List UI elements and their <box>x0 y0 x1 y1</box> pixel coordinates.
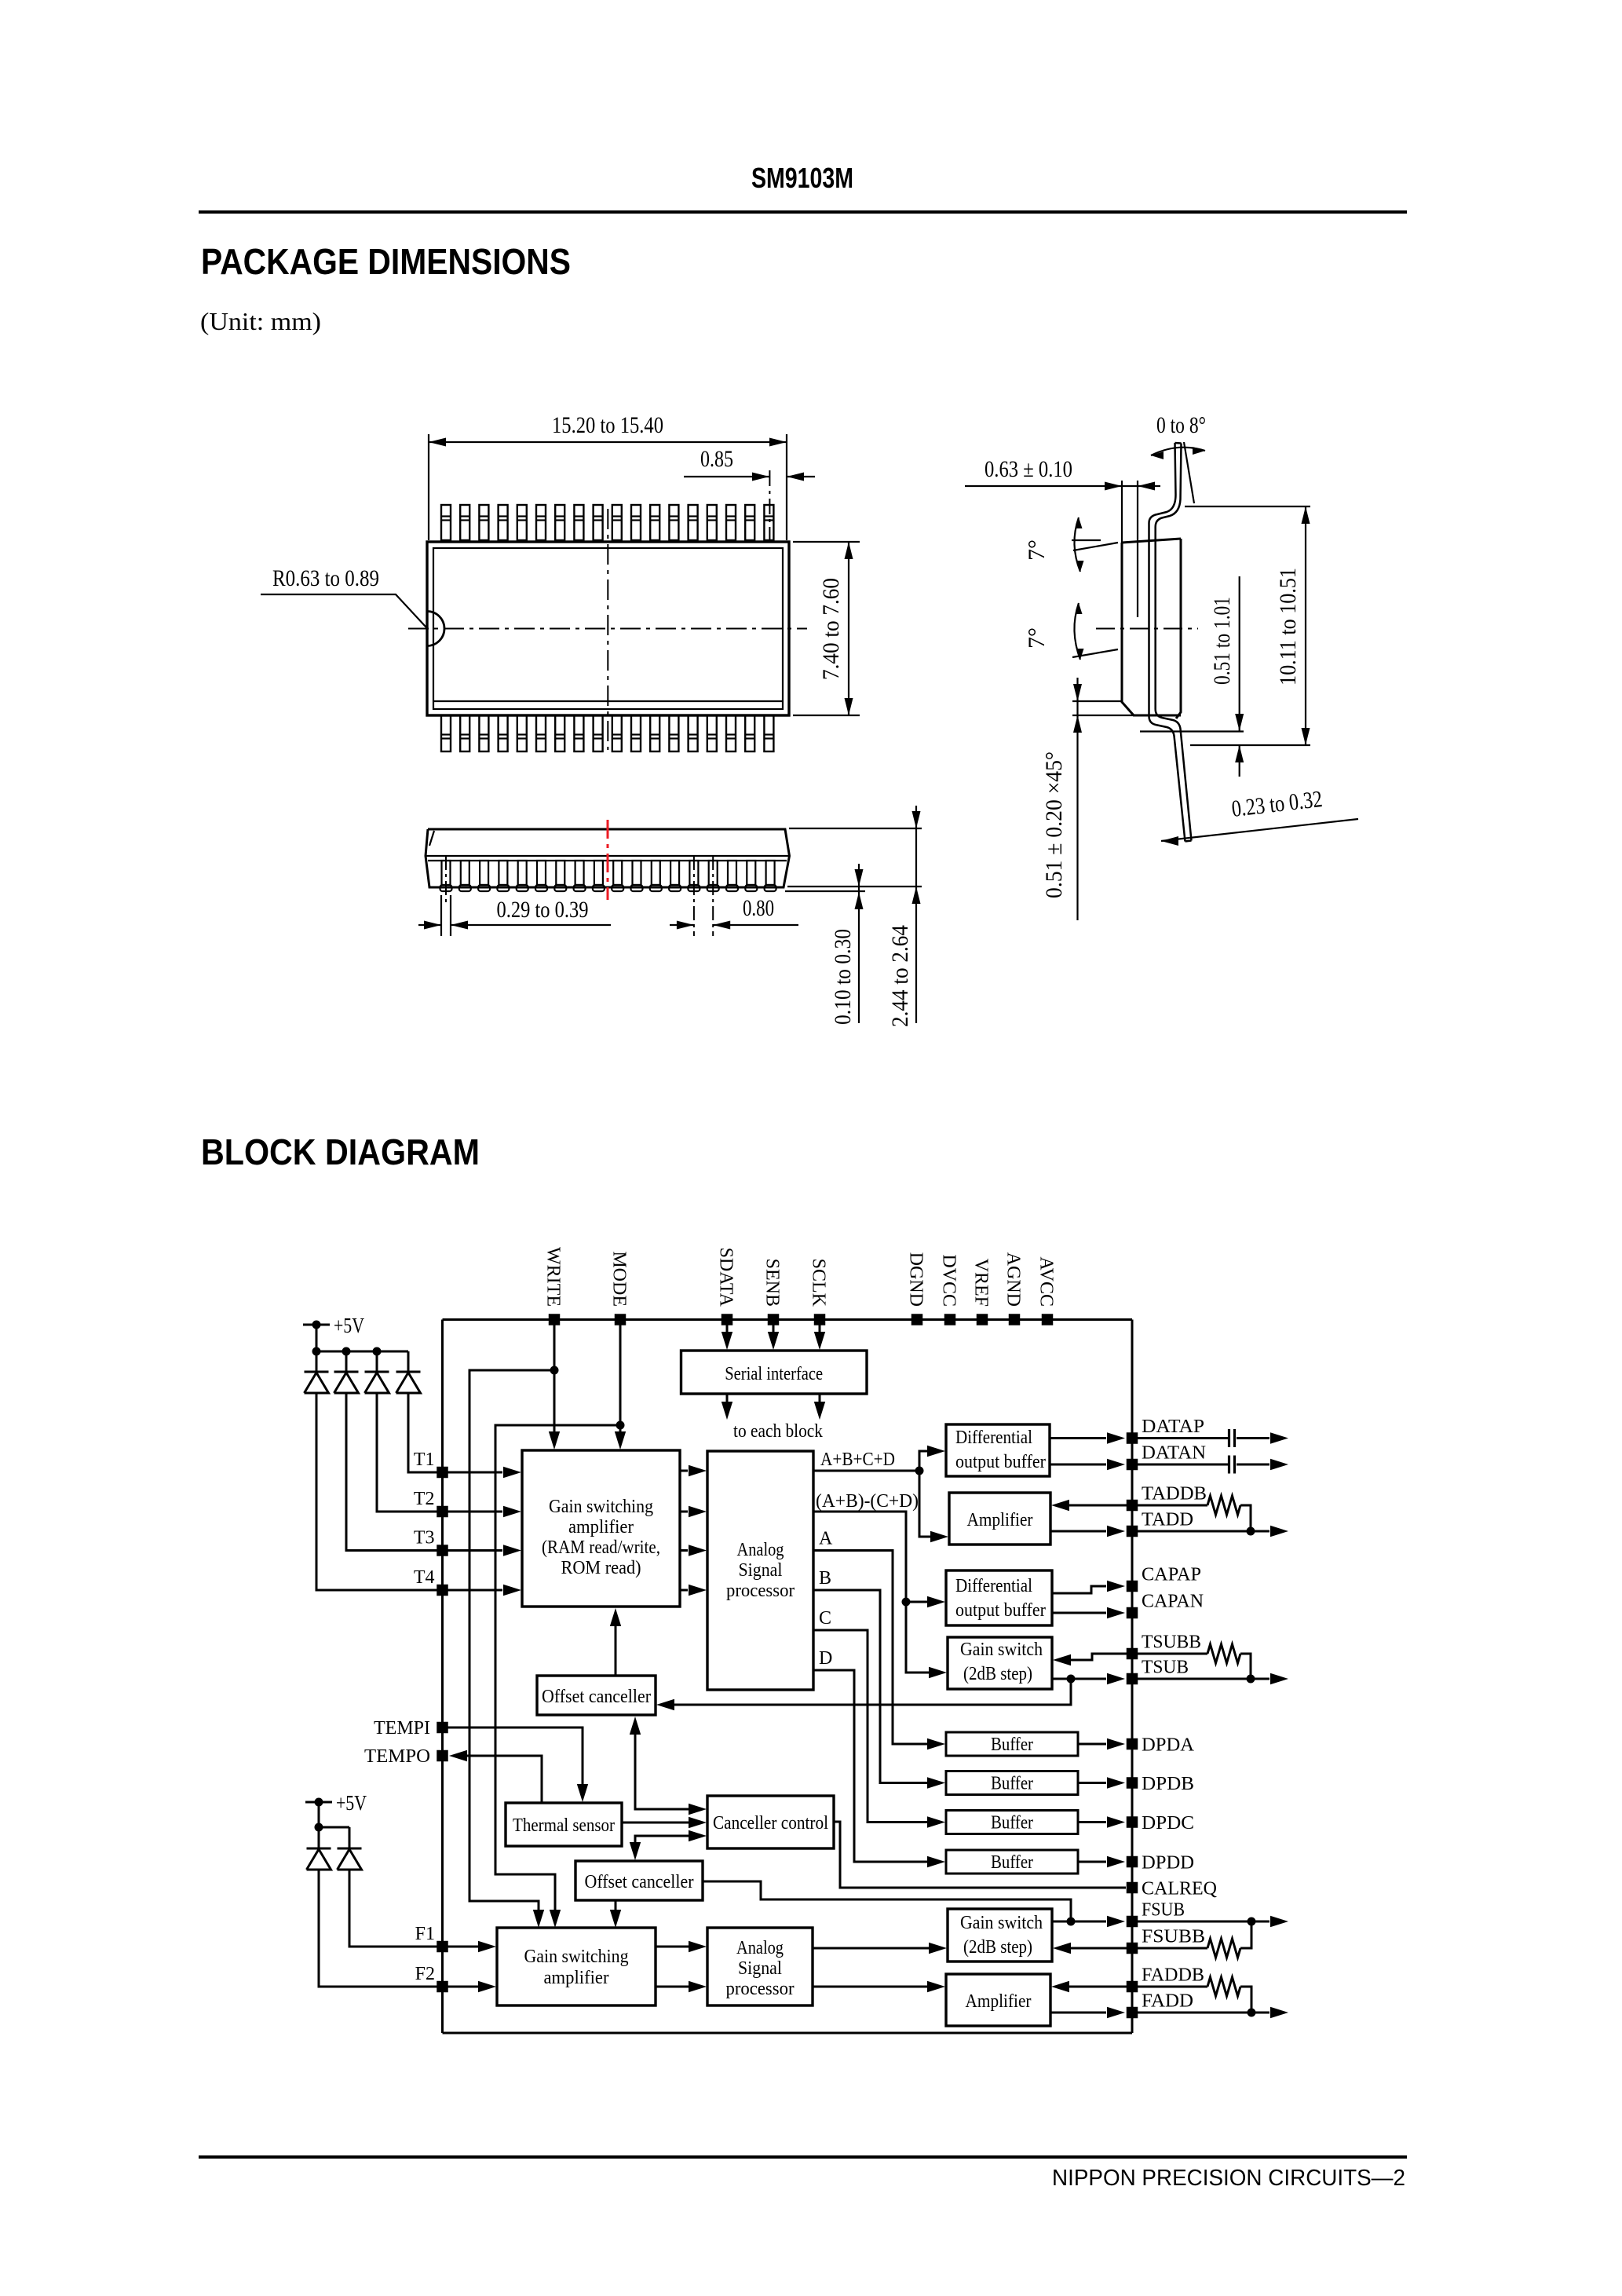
block Buffer A <box>946 1732 1078 1756</box>
wire T3 to amplifier input <box>448 1545 522 1556</box>
wire SDATA to Serial interface <box>721 1325 732 1351</box>
package centre lines <box>408 509 807 750</box>
svg-text:processor: processor <box>726 1979 795 1999</box>
wire +5V to lower diodes <box>315 1802 350 1832</box>
svg-text:Differential: Differential <box>955 1576 1032 1596</box>
svg-text:0.51 to 1.01: 0.51 to 1.01 <box>1209 597 1235 685</box>
pin VREF <box>971 1259 992 1325</box>
svg-text:SDATA: SDATA <box>716 1248 736 1307</box>
svg-text:7°: 7° <box>1024 627 1050 649</box>
svg-text:CALREQ: CALREQ <box>1142 1879 1217 1899</box>
block lower Analog Signal processor <box>707 1928 813 2005</box>
pin TEMPO <box>364 1746 448 1767</box>
wire MODE down to amplifier <box>615 1325 626 1450</box>
diode D3 <box>365 1351 389 1393</box>
svg-text:B: B <box>819 1568 831 1589</box>
diode D4 <box>396 1351 421 1393</box>
svg-text:AGND: AGND <box>1003 1252 1024 1307</box>
label R0.63 to 0.89 with leader <box>261 565 426 627</box>
dimension 7 degrees (top) <box>1024 517 1118 572</box>
svg-text:DPDD: DPDD <box>1142 1853 1194 1874</box>
wire diode D6 to F1 <box>349 1870 437 1947</box>
svg-text:0.10 to 0.30: 0.10 to 0.30 <box>830 929 856 1025</box>
pin SENB <box>762 1259 783 1325</box>
wire canceller control to CALREQ <box>834 1822 1126 1888</box>
svg-text:TEMPI: TEMPI <box>374 1718 430 1738</box>
svg-text:TADD: TADD <box>1142 1510 1193 1530</box>
svg-text:FSUB: FSUB <box>1142 1900 1185 1921</box>
svg-text:(A+B)-(C+D): (A+B)-(C+D) <box>816 1491 919 1512</box>
svg-text:TADDB: TADDB <box>1142 1484 1207 1504</box>
svg-text:+5V: +5V <box>334 1314 364 1337</box>
svg-text:DGND: DGND <box>906 1252 926 1307</box>
svg-text:(RAM read/write,: (RAM read/write, <box>542 1537 660 1558</box>
svg-text:D: D <box>819 1648 832 1669</box>
pin DGND <box>906 1252 926 1325</box>
svg-text:FADDB: FADDB <box>1142 1965 1204 1986</box>
svg-text:(Unit: mm): (Unit: mm) <box>200 307 321 335</box>
wire diode to T4 <box>316 1393 437 1590</box>
svg-text:T3: T3 <box>414 1528 435 1548</box>
wire canceller control input 3 (to offset canceller 2) <box>630 1830 707 1860</box>
svg-text:MODE: MODE <box>609 1251 630 1307</box>
svg-text:DATAP: DATAP <box>1142 1417 1204 1437</box>
svg-text:F1: F1 <box>415 1924 435 1944</box>
red centre line <box>607 820 609 900</box>
pin SCLK <box>809 1259 829 1325</box>
svg-text:Gain switching: Gain switching <box>549 1497 653 1517</box>
pin DATAN with capacitor C2 <box>1050 1443 1288 1474</box>
pin FADDB with resistor R4 <box>1051 1965 1251 2013</box>
pin FADD <box>1050 1991 1288 2019</box>
block Gain switch (2dB step) 1 <box>948 1637 1052 1689</box>
block Amplifier 2 <box>946 1974 1050 2026</box>
block Offset canceller 2 <box>575 1861 703 1900</box>
wire TSUB feedback to offset canceller 1 <box>656 1679 1071 1710</box>
svg-text:DATAN: DATAN <box>1142 1443 1206 1464</box>
power +5V (top) <box>303 1314 364 1337</box>
wire MODE branch to lower amplifier <box>495 1425 620 1928</box>
pin DPDB <box>1078 1774 1194 1794</box>
pin CAPAP <box>1052 1565 1201 1594</box>
svg-text:VREF: VREF <box>971 1259 992 1307</box>
wires Serial interface to each block <box>721 1394 825 1420</box>
svg-text:SENB: SENB <box>762 1259 783 1307</box>
svg-text:0.51 ± 0.20 ×45°: 0.51 ± 0.20 ×45° <box>1041 751 1067 898</box>
pin FSUB <box>1052 1900 1288 1928</box>
header rule <box>199 210 1407 214</box>
net D <box>813 1648 945 1867</box>
svg-text:amplifier: amplifier <box>568 1517 634 1537</box>
diode D5 <box>307 1827 331 1870</box>
svg-text:C: C <box>819 1608 831 1629</box>
pin DVCC <box>939 1254 959 1325</box>
wire T2 to amplifier input <box>448 1506 522 1517</box>
svg-text:0 to 8°: 0 to 8° <box>1156 412 1206 438</box>
net A <box>813 1529 945 1750</box>
svg-text:T2: T2 <box>414 1489 435 1509</box>
dimension 0.51 to 1.01 <box>1140 576 1244 777</box>
svg-text:R0.63 to 0.89: R0.63 to 0.89 <box>272 565 379 591</box>
wire offset canceller 2 to lower amplifier <box>610 1900 621 1928</box>
svg-text:AVCC: AVCC <box>1036 1256 1057 1307</box>
package top view pins (top row) <box>441 505 773 540</box>
block Differential output buffer 1 <box>946 1424 1050 1476</box>
wire diode to T3 <box>346 1393 437 1551</box>
dimension 0.51 +/- 0.20 x45 <box>1041 678 1134 920</box>
footer text <box>1052 2166 1405 2191</box>
svg-text:Amplifier: Amplifier <box>966 1991 1032 2012</box>
end view body <box>1122 539 1181 718</box>
pin DPDC <box>1078 1813 1194 1834</box>
package top view body <box>427 542 789 715</box>
end view centre line <box>1096 628 1198 630</box>
block Differential output buffer 2 <box>946 1570 1052 1625</box>
svg-text:WRITE: WRITE <box>543 1247 564 1307</box>
svg-text:ROM read): ROM read) <box>561 1558 641 1578</box>
pin WRITE <box>543 1247 564 1325</box>
svg-text:Serial interface: Serial interface <box>725 1364 823 1384</box>
svg-text:BLOCK DIAGRAM: BLOCK DIAGRAM <box>201 1132 480 1172</box>
svg-text:Analog: Analog <box>737 1540 784 1560</box>
svg-text:TSUB: TSUB <box>1142 1658 1189 1678</box>
svg-text:(2dB step): (2dB step) <box>963 1664 1032 1684</box>
svg-text:Thermal sensor: Thermal sensor <box>513 1815 615 1836</box>
svg-text:0.63 ± 0.10: 0.63 ± 0.10 <box>985 456 1072 482</box>
dimension 10.11 to 10.51 <box>1185 506 1310 745</box>
wire T1 to amplifier input <box>448 1467 522 1478</box>
svg-text:processor: processor <box>726 1581 795 1601</box>
svg-text:Buffer: Buffer <box>991 1774 1033 1794</box>
section heading BLOCK DIAGRAM <box>201 1132 480 1172</box>
wire TEMPI to Thermal sensor <box>448 1727 589 1802</box>
svg-text:Canceller control: Canceller control <box>713 1813 828 1834</box>
net A+B+C+D <box>813 1446 948 1542</box>
svg-text:to each block: to each block <box>733 1421 823 1442</box>
wire canceller control input 1 (to offset canceller 1) <box>630 1717 707 1815</box>
pin T1 <box>414 1450 448 1478</box>
wire SCLK to Serial interface <box>814 1325 825 1351</box>
side view extension lines <box>785 828 922 891</box>
note to each block <box>733 1421 823 1442</box>
svg-text:Amplifier: Amplifier <box>967 1510 1033 1530</box>
dimension 0.85 <box>684 446 815 540</box>
svg-text:PACKAGE DIMENSIONS: PACKAGE DIMENSIONS <box>201 241 571 282</box>
svg-text:NIPPON PRECISION CIRCUITS—2: NIPPON PRECISION CIRCUITS—2 <box>1052 2166 1405 2191</box>
footer rule <box>199 2155 1407 2159</box>
wire +5V to diode rail <box>312 1325 409 1356</box>
wire F2 to lower amplifier <box>448 1981 497 1992</box>
block Analog Signal processor <box>707 1451 813 1690</box>
wire right rail <box>1131 1320 1134 2034</box>
wire diode to T2 <box>377 1393 437 1512</box>
svg-text:FADD: FADD <box>1142 1991 1193 2012</box>
block Buffer D <box>946 1850 1078 1874</box>
svg-text:7°: 7° <box>1024 539 1050 561</box>
svg-text:0.85: 0.85 <box>700 446 733 472</box>
pin F1 <box>415 1924 448 1952</box>
wire T4 to amplifier input <box>448 1585 522 1596</box>
block Buffer B <box>946 1771 1078 1795</box>
block Gain switch (2dB step) 2 <box>948 1909 1052 1961</box>
dimension 2.44 to 2.64 <box>887 806 921 1027</box>
wires lower ASP outputs <box>813 1943 947 1992</box>
pin T2 <box>414 1489 448 1517</box>
svg-text:T4: T4 <box>414 1567 435 1588</box>
pin AVCC <box>1036 1256 1057 1325</box>
svg-text:Buffer: Buffer <box>991 1813 1033 1834</box>
wire F1 to lower amplifier <box>448 1941 497 1952</box>
dimension 15.20 to 15.40 <box>429 412 787 540</box>
wire WRITE down to amplifier <box>549 1325 560 1450</box>
svg-text:SCLK: SCLK <box>809 1259 829 1307</box>
pin T4 <box>414 1567 448 1596</box>
svg-text:Signal: Signal <box>739 1560 783 1581</box>
wires amplifier to ASP <box>680 1465 707 1596</box>
pin AGND <box>1003 1252 1024 1325</box>
svg-text:Gain switch: Gain switch <box>960 1913 1043 1933</box>
pin CAPAN <box>1052 1592 1204 1619</box>
wire WRITE branch to lower amplifier <box>469 1370 554 1928</box>
block Amplifier 1 <box>949 1493 1050 1545</box>
package side view leads <box>440 861 776 891</box>
svg-text:15.20 to 15.40: 15.20 to 15.40 <box>552 412 663 438</box>
block Buffer C <box>946 1811 1078 1834</box>
section heading PACKAGE DIMENSIONS <box>201 241 571 282</box>
pin DPDD <box>1078 1853 1194 1874</box>
svg-text:output buffer: output buffer <box>955 1452 1046 1472</box>
svg-text:DPDB: DPDB <box>1142 1774 1194 1794</box>
pin TSUB <box>1052 1658 1288 1685</box>
svg-text:7.40 to 7.60: 7.40 to 7.60 <box>818 578 844 680</box>
unit note <box>200 307 321 335</box>
pin SDATA <box>716 1248 736 1325</box>
wire canceller control input 2 (thermal sensor) <box>622 1817 707 1828</box>
svg-text:10.11 to 10.51: 10.11 to 10.51 <box>1275 568 1301 686</box>
svg-text:Differential: Differential <box>955 1428 1032 1448</box>
pin TADDB with resistor R1 <box>1051 1484 1251 1532</box>
net (A+B)-(C+D) <box>813 1491 947 1678</box>
svg-text:amplifier: amplifier <box>544 1968 609 1988</box>
wire left rail <box>441 1320 444 2034</box>
svg-text:output buffer: output buffer <box>955 1600 1046 1621</box>
dimension 7.40 to 7.60 <box>793 542 860 715</box>
wire Offset canceller 1 to amplifier <box>610 1608 621 1676</box>
wires lower amplifier to lower ASP <box>656 1941 707 1992</box>
svg-text:Offset canceller: Offset canceller <box>585 1872 694 1892</box>
dimension 0.63 +/- 0.10 <box>965 456 1160 617</box>
net C <box>813 1608 945 1828</box>
pin TSUBB with resistor R2 <box>1053 1632 1251 1680</box>
svg-text:A+B+C+D: A+B+C+D <box>820 1450 895 1470</box>
dimension 0.29 to 0.39 <box>418 856 611 936</box>
diode D6 <box>338 1827 362 1870</box>
block Gain switching amplifier (RAM/ROM) <box>522 1450 680 1607</box>
svg-text:Signal: Signal <box>738 1958 782 1979</box>
wire top bus <box>443 1318 1133 1321</box>
block Thermal sensor <box>506 1803 622 1846</box>
svg-text:FSUBB: FSUBB <box>1142 1927 1205 1947</box>
svg-text:(2dB step): (2dB step) <box>963 1937 1032 1958</box>
svg-text:DVCC: DVCC <box>939 1254 959 1307</box>
power +5V (bottom) <box>305 1791 367 1815</box>
wire bottom return <box>443 2032 1133 2035</box>
svg-text:A: A <box>819 1529 833 1549</box>
svg-text:DPDC: DPDC <box>1142 1813 1194 1834</box>
pin FSUBB with resistor R3 <box>1053 1921 1251 1958</box>
svg-text:TSUBB: TSUBB <box>1142 1632 1201 1653</box>
block lower Gain switching amplifier <box>497 1928 656 2005</box>
svg-text:0.80: 0.80 <box>743 895 774 921</box>
dimension 0.80 <box>670 856 798 936</box>
pin TADD <box>1050 1510 1288 1537</box>
end view gull-wing lead <box>1149 443 1192 842</box>
wire Thermal sensor to TEMPO <box>449 1750 542 1803</box>
svg-text:DPDA: DPDA <box>1142 1735 1195 1756</box>
dimension 0.23 to 0.32 <box>1161 786 1358 846</box>
dimension 0 to 8 degrees <box>1151 412 1206 503</box>
pin DPDA <box>1078 1735 1195 1756</box>
svg-text:+5V: +5V <box>336 1791 367 1815</box>
svg-text:F2: F2 <box>415 1964 435 1984</box>
wire offset canceller 2 to FSUB feedback <box>703 1881 1071 1921</box>
pin DATAP with capacitor C1 <box>1050 1417 1288 1447</box>
wire diode D5 to F2 <box>319 1870 437 1987</box>
svg-text:2.44 to 2.64: 2.44 to 2.64 <box>887 925 913 1027</box>
pin TEMPI <box>374 1718 448 1738</box>
svg-text:0.29 to 0.39: 0.29 to 0.39 <box>497 897 589 923</box>
package top view pins (bottom row) <box>441 715 773 751</box>
svg-text:CAPAN: CAPAN <box>1142 1592 1204 1612</box>
pin T3 <box>414 1528 448 1556</box>
svg-text:T1: T1 <box>414 1450 435 1470</box>
wire SENB to Serial interface <box>768 1325 779 1351</box>
wire diode to T1 <box>408 1393 437 1472</box>
pin1 notch semicircle <box>427 612 444 646</box>
svg-text:Gain switching: Gain switching <box>524 1947 629 1967</box>
svg-text:Buffer: Buffer <box>991 1852 1033 1873</box>
block Serial interface <box>681 1351 868 1394</box>
pin MODE <box>609 1251 630 1325</box>
svg-text:CAPAP: CAPAP <box>1142 1565 1201 1585</box>
diode D2 <box>334 1351 359 1393</box>
svg-text:Buffer: Buffer <box>991 1735 1033 1755</box>
svg-text:Gain switch: Gain switch <box>960 1640 1043 1660</box>
svg-text:Offset canceller: Offset canceller <box>542 1687 651 1707</box>
svg-text:Analog: Analog <box>736 1938 784 1958</box>
pin F2 <box>415 1964 448 1992</box>
diode D1 <box>305 1351 329 1393</box>
block Offset canceller 1 <box>537 1676 656 1715</box>
dimension 0.10 to 0.30 <box>830 864 864 1025</box>
block Canceller control <box>707 1796 834 1848</box>
page header title SM9103M <box>751 162 853 194</box>
svg-text:TEMPO: TEMPO <box>364 1746 430 1767</box>
net B <box>813 1568 945 1789</box>
svg-text:SM9103M: SM9103M <box>751 162 853 194</box>
package side view body <box>426 829 790 887</box>
dimension 7 degrees (bottom) <box>1024 603 1118 660</box>
pin CALREQ <box>1127 1879 1217 1899</box>
